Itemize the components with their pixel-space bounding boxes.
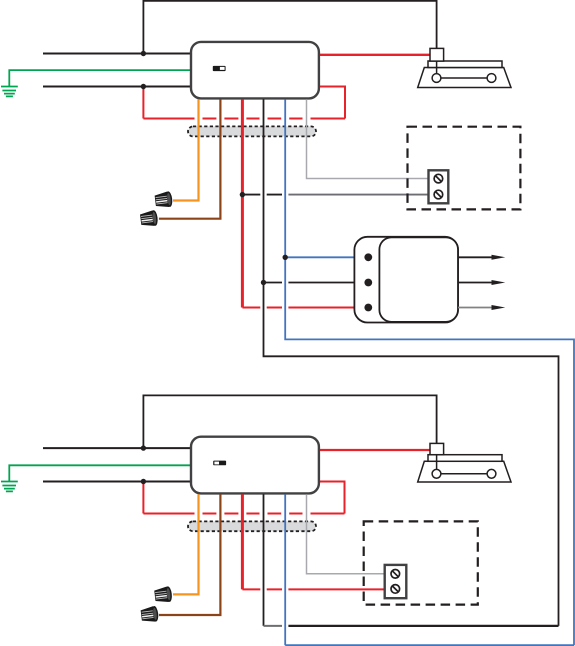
node junction input B / red jumper (top) [141,84,146,89]
module U3 (bottom timer/control box) [191,437,319,494]
wire red relay input [242,307,368,309]
screw terminal TB1-1 [434,174,443,183]
wire red lead thick (bottom) [241,494,244,589]
aux switch dashed enclosure (top) [408,127,521,210]
terminal block TB1 (top) [429,170,449,203]
wire red link to aux switch block (bottom) [242,588,384,590]
arrow output 1 [458,256,493,258]
wire gray lead to aux switch (bottom) [307,494,385,574]
wire nut W2 (brown, top) [140,210,159,228]
pin dot U2-1 [364,253,372,261]
ground (bottom) [1,482,18,492]
ground (top) [1,87,18,97]
wire blue bus bottom run [285,644,574,646]
relay module U2 inner body [379,237,458,322]
lamp fixture (bottom): base trapezoid [418,461,511,482]
wire gray lead to aux switch (top) [307,99,429,178]
wire black lead / bus (bottom) [263,494,265,626]
wire blue lead / bus (bottom) [284,494,286,645]
screw terminal TB2-1 [391,570,400,579]
wire black input A (bottom) [43,447,191,449]
wire brown lead (top) [159,99,221,218]
relay module U2 outer shell [354,237,458,323]
node junction red lead / link (top) [240,192,245,197]
wire red lamp feed (top) [319,54,430,56]
lamp fixture (bottom): junction box [430,443,444,454]
node junction black bus [261,280,266,285]
wire lamp drop (top) [436,61,438,74]
wire red jumper loop (top) [142,87,144,119]
switch icon U1 (right position) [213,66,226,71]
wire black input B (top) [43,86,191,88]
wire black input B (bottom) [43,481,191,483]
lamp fixture (top): junction box [430,48,444,61]
wire blue lead / bus down (top) [285,99,574,645]
wire nut W1 (orange, top) [154,191,173,209]
screw terminal TB1-2 [434,190,443,199]
wire black relay input [264,282,369,284]
node junction rail/input A (top) [141,51,146,56]
wire nut W4 (brown, bottom) [140,606,159,624]
wire red lamp feed (bottom) [319,449,430,451]
lamp fixture (bottom): terminal screws [441,473,487,475]
arrow output 2 [458,282,493,284]
lamp fixture (bottom): mounting bar [428,455,502,462]
switch icon U3 (left position) [213,461,226,466]
wire brown lead (bottom) [159,494,221,615]
node junction input B / red jumper (bottom) [141,479,146,484]
wire orange lead (bottom) [173,494,199,594]
screw terminal TB2-2 [391,585,400,594]
wire nut W3 (orange, bottom) [154,586,173,604]
wire black input A (top) [43,53,191,55]
pin dot U2-3 [364,304,372,312]
node junction blue bus [283,255,288,260]
wire black bus bottom run [264,625,283,627]
aux switch dashed enclosure (bottom) [364,521,478,604]
wire bottom supply rail [143,395,436,448]
wire green ground wire (bottom) [9,465,191,481]
node junction rail/input A (bottom) [141,445,146,450]
wire blue relay input [285,256,368,258]
pin dot U2-2 [364,279,372,287]
arrow output 3 [458,307,493,309]
lamp fixture (top): base trapezoid [418,68,511,88]
wire green ground wire (top) [9,70,191,86]
wire red jumper loop (bottom) [142,482,144,514]
wire top supply rail [143,1,436,54]
harness wrap capsule (bottom) [188,521,316,531]
terminal block TB2 (bottom) [385,565,407,598]
wire orange lead (top) [173,99,199,200]
lamp fixture (top): terminal screws [441,77,487,79]
wire lamp drop (bottom) [436,455,438,470]
wire red lead thick (top) [241,99,244,307]
wire black-gray link to aux switch block (top) [242,194,282,196]
wire black lead / bus down (top) [264,99,559,626]
module U1 (top timer/control box) [191,42,319,99]
lamp fixture (top): mounting bar [428,61,502,68]
harness wrap capsule (top) [188,126,316,136]
